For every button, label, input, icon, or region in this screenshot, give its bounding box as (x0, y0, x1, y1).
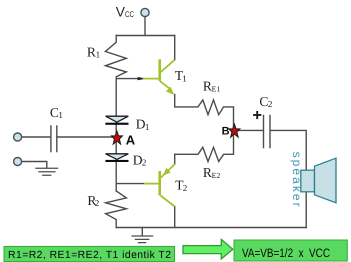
svg-text:2: 2 (95, 198, 100, 208)
svg-text:R: R (203, 165, 212, 180)
svg-text:VA=VB=1/2 x VCC: VA=VB=1/2 x VCC (242, 246, 330, 260)
svg-text:1: 1 (96, 49, 101, 59)
svg-text:R: R (87, 44, 96, 59)
svg-text:E2: E2 (212, 171, 221, 180)
svg-text:A: A (126, 132, 136, 147)
svg-text:R1=R2, RE1=RE2, T1 identik T2: R1=R2, RE1=RE2, T1 identik T2 (8, 250, 171, 261)
svg-text:2: 2 (183, 183, 188, 193)
svg-text:1: 1 (58, 110, 63, 120)
svg-text:1: 1 (182, 74, 187, 84)
svg-text:1: 1 (145, 122, 150, 132)
svg-text:CC: CC (125, 9, 134, 19)
svg-text:speaker: speaker (290, 152, 304, 207)
svg-text:2: 2 (268, 99, 273, 109)
svg-text:E1: E1 (212, 85, 221, 94)
svg-text:B: B (222, 126, 230, 138)
svg-text:2: 2 (142, 158, 147, 168)
svg-text:R: R (203, 78, 212, 93)
